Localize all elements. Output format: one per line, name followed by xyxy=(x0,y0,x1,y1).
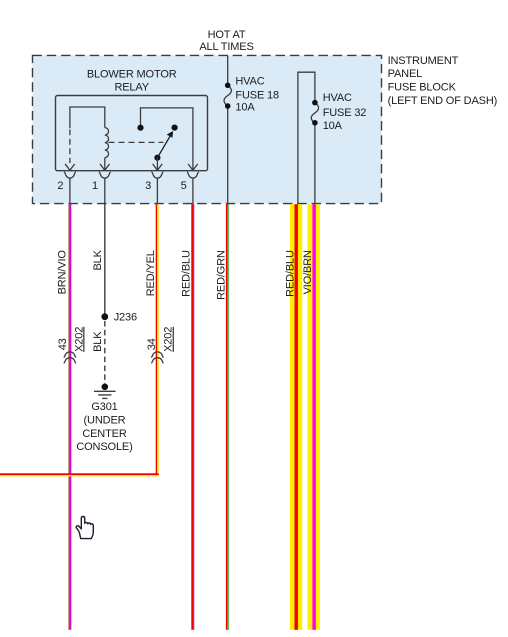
relay pin 3 arrowhead xyxy=(153,164,163,170)
fuse F18 (HVAC FUSE 18 10A) xyxy=(224,83,231,109)
svg-text:HVAC: HVAC xyxy=(323,92,352,104)
label fuse 18 xyxy=(235,76,279,114)
svg-text:ALL TIMES: ALL TIMES xyxy=(199,41,253,53)
svg-text:PANEL: PANEL xyxy=(388,68,423,80)
svg-text:FUSE 18: FUSE 18 xyxy=(235,90,279,102)
svg-text:X202: X202 xyxy=(163,327,175,352)
svg-text:43: 43 xyxy=(57,338,69,350)
svg-text:10A: 10A xyxy=(235,101,255,113)
instrument panel fuse block (dashed box) xyxy=(33,55,382,203)
fuse F32 (HVAC FUSE 32 10A) xyxy=(311,100,318,126)
svg-text:BLK: BLK xyxy=(92,331,104,352)
svg-text:(UNDER: (UNDER xyxy=(84,414,126,426)
svg-text:RELAY: RELAY xyxy=(114,82,149,94)
svg-text:HOT AT: HOT AT xyxy=(208,29,246,41)
fuse 32 loop wire xyxy=(298,72,315,206)
svg-text:10A: 10A xyxy=(323,120,343,132)
svg-text:G301: G301 xyxy=(91,401,117,413)
relay pin 5 arrowhead xyxy=(188,164,198,170)
svg-text:RED/GRN: RED/GRN xyxy=(215,250,227,300)
relay switch contact dot (to pin 5) xyxy=(137,125,143,131)
svg-text:2: 2 xyxy=(57,180,63,192)
pin 3 connector cup xyxy=(151,172,163,178)
connector X202 break on BRN/VIO xyxy=(64,352,76,363)
svg-text:INSTRUMENT: INSTRUMENT xyxy=(388,55,459,67)
connector X202 break on RED/YEL xyxy=(151,352,163,363)
wire RED/YEL horizontal run to left edge xyxy=(0,473,159,476)
svg-text:34: 34 xyxy=(146,338,158,350)
wire BLK (pin 1) xyxy=(104,204,106,317)
wire gray stub pin 1 xyxy=(104,178,106,204)
svg-text:X202: X202 xyxy=(73,327,85,352)
svg-text:RED/YEL: RED/YEL xyxy=(145,250,157,296)
svg-text:3: 3 xyxy=(145,180,151,192)
relay pin 1 arrowhead xyxy=(100,164,110,170)
svg-text:1: 1 xyxy=(92,180,98,192)
wire BLK dashed to ground xyxy=(104,321,106,384)
wire BRN/VIO (pin 2) xyxy=(69,204,72,630)
relay switch fixed contact wire to pin 5 xyxy=(141,108,193,170)
wire RED/BLU (pin 5) xyxy=(191,204,194,630)
wire RED/YEL (pin 3) xyxy=(156,204,159,475)
svg-text:VIO/BRN: VIO/BRN xyxy=(302,250,314,294)
label INSTRUMENT PANEL FUSE BLOCK (LEFT END OF DASH) xyxy=(388,55,498,107)
relay coil branch: pin 2 to pin 1 wire xyxy=(70,107,105,163)
wire gray stub pin 3 xyxy=(156,178,158,204)
svg-text:BRN/VIO: BRN/VIO xyxy=(56,250,68,295)
node HOT AT ALL TIMES xyxy=(199,29,253,53)
pin 1 connector cup xyxy=(99,172,111,178)
svg-text:BLK: BLK xyxy=(92,249,104,270)
svg-text:FUSE BLOCK: FUSE BLOCK xyxy=(388,82,457,94)
relay pin 2 arrowhead xyxy=(65,164,75,170)
label fuse 32 xyxy=(323,92,367,132)
fuse 18 feed wire xyxy=(227,55,229,204)
svg-text:CENTER: CENTER xyxy=(82,428,127,440)
pin 5 connector cup xyxy=(187,172,199,178)
wire gray stub pin 2 xyxy=(69,178,71,204)
label BLOWER MOTOR RELAY xyxy=(87,68,177,93)
svg-text:CONSOLE): CONSOLE) xyxy=(76,441,132,453)
relay switch common dot (pin 3) xyxy=(154,155,160,161)
ground G301 xyxy=(76,384,132,454)
svg-text:J236: J236 xyxy=(114,312,137,324)
svg-text:RED/BLU: RED/BLU xyxy=(180,250,192,297)
wire gray stub pin 5 xyxy=(192,178,194,204)
relay switch floating contact dot xyxy=(172,125,178,131)
svg-text:5: 5 xyxy=(181,180,187,192)
svg-text:BLOWER MOTOR: BLOWER MOTOR xyxy=(87,68,177,80)
svg-text:FUSE 32: FUSE 32 xyxy=(323,107,367,119)
svg-text:HVAC: HVAC xyxy=(235,76,264,88)
wire VIO/BRN highlighted (fuse 32 output) xyxy=(307,204,319,630)
svg-text:(LEFT END OF DASH): (LEFT END OF DASH) xyxy=(388,95,498,107)
wire RED/GRN (fuse 18 output) xyxy=(226,204,229,630)
relay switch movable arm with arrowhead xyxy=(157,131,173,169)
mouse hand cursor xyxy=(76,517,93,539)
relay K (blower motor relay) box xyxy=(56,96,208,171)
svg-text:RED/BLU: RED/BLU xyxy=(284,250,296,297)
splice J236 xyxy=(101,312,137,324)
pin 2 connector cup xyxy=(64,172,76,178)
relay actuation dashed link xyxy=(109,141,164,143)
wire RED/BLU highlighted (to fuse 32) xyxy=(290,204,302,630)
relay coil L1 xyxy=(105,128,109,170)
